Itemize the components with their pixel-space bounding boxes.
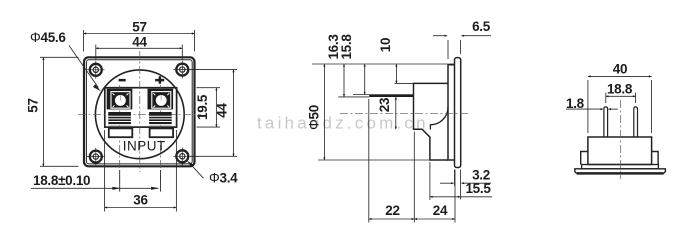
- upper slab: [582, 165, 659, 169]
- screw hole bottom-left: [87, 148, 105, 166]
- svg-text:1.8: 1.8: [566, 96, 585, 111]
- terminal R button: [150, 128, 174, 137]
- side body inner fillet: [430, 107, 448, 129]
- dimension 1.8: [566, 108, 618, 110]
- dimension 24: [414, 170, 455, 223]
- svg-text:22: 22: [385, 203, 399, 218]
- dimension 18.8±0.10: [31, 170, 161, 192]
- dimension 15.5: [430, 162, 492, 200]
- side centerline: [340, 112, 470, 114]
- dimension 18.8: [606, 93, 636, 104]
- svg-text:15.5: 15.5: [465, 181, 491, 196]
- svg-text:taihaodz.com.cn: taihaodz.com.cn: [257, 114, 429, 133]
- base bottom thick edge: [577, 172, 663, 174]
- dimension 15.8: [364, 64, 366, 95]
- bottom extension line boss: [318, 159, 430, 161]
- minus symbol: [119, 79, 126, 82]
- svg-text:6.5: 6.5: [472, 19, 491, 34]
- center dash line: [620, 100, 622, 179]
- svg-text:Φ50: Φ50: [307, 105, 322, 130]
- svg-text:57: 57: [26, 98, 41, 112]
- svg-text:10: 10: [378, 38, 393, 52]
- svg-text:24: 24: [433, 203, 448, 218]
- side pin: [369, 94, 413, 97]
- svg-text:INPUT: INPUT: [123, 138, 166, 153]
- centerline vertical: [139, 51, 141, 172]
- dimension 40: [588, 76, 652, 133]
- dimension 16.3: [343, 64, 345, 97]
- pin right: [634, 107, 638, 138]
- dimension 23: [395, 97, 397, 129]
- plus symbol: [155, 76, 164, 84]
- dimension 36 bottom: [105, 130, 177, 212]
- base plate edge: [575, 169, 666, 174]
- terminal centerline right: [160, 85, 162, 192]
- terminal L face: [107, 89, 133, 110]
- svg-text:57: 57: [132, 20, 146, 35]
- svg-text:15.8: 15.8: [339, 34, 354, 60]
- dimension 19.5 right: [197, 88, 221, 127]
- dimension 3.2: [440, 170, 491, 200]
- svg-text:23: 23: [377, 97, 392, 112]
- svg-text:18.8±0.10: 18.8±0.10: [33, 173, 90, 188]
- common top extension line: [312, 63, 455, 65]
- svg-text:Φ3.4: Φ3.4: [209, 171, 238, 186]
- screw hole top-left: [87, 61, 105, 79]
- dimension 10: [395, 82, 414, 84]
- svg-text:36: 36: [133, 193, 148, 208]
- dimension 57 left: [40, 57, 79, 166]
- screw hole bottom-right: [174, 148, 200, 168]
- dimension phi50: [323, 64, 325, 160]
- terminal L ribs: [108, 112, 131, 125]
- svg-text:44: 44: [215, 103, 230, 118]
- svg-text:Φ45.6: Φ45.6: [30, 30, 66, 45]
- plate outline: [84, 57, 195, 166]
- side boss phi50: [448, 65, 455, 160]
- dimension 22: [369, 99, 415, 223]
- side body outline: [414, 83, 449, 160]
- svg-text:19.5: 19.5: [195, 94, 210, 120]
- terminal L button: [109, 128, 133, 137]
- dimension 44 top: [96, 45, 183, 61]
- svg-text:44: 44: [132, 35, 147, 50]
- pin extension lines: [338, 95, 369, 97]
- svg-text:40: 40: [613, 62, 627, 77]
- right tab: [652, 152, 659, 165]
- screw hole top-right: [174, 61, 200, 79]
- leader phi45.6: [69, 46, 98, 88]
- centerline horizontal: [78, 113, 201, 115]
- pin left: [604, 107, 608, 138]
- left tab: [581, 152, 588, 165]
- terminal R ribs: [149, 112, 172, 125]
- dimension 6.5: [433, 36, 491, 59]
- leader phi3.4: [189, 162, 204, 178]
- terminal centerline left: [119, 85, 121, 192]
- bottom body box: [588, 137, 652, 165]
- terminal window rectangle: [105, 88, 177, 127]
- dimension 57 top: [84, 30, 195, 52]
- svg-text:18.8: 18.8: [607, 81, 633, 96]
- terminal R face: [148, 89, 174, 110]
- side plate: [455, 58, 461, 168]
- plate inner border: [86, 60, 192, 164]
- dimension 44 right: [190, 70, 237, 157]
- recess circle phi45.6: [95, 70, 184, 159]
